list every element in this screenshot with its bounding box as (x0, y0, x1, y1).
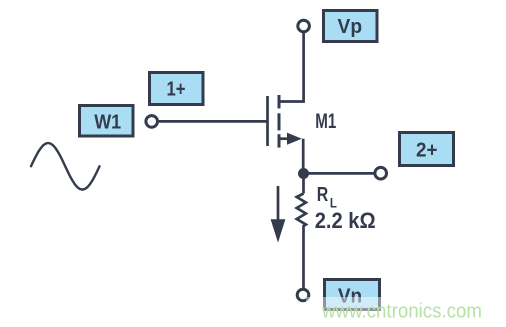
terminal W1 (146, 116, 158, 128)
svg-text:2.2 kΩ: 2.2 kΩ (315, 208, 376, 233)
source lead (279, 137, 289, 140)
channel segment top (278, 95, 281, 108)
label box W1 (80, 106, 134, 137)
node junction dot (298, 168, 309, 179)
wire W1 to gate (159, 120, 267, 123)
wire junction to output terminal (304, 172, 375, 175)
svg-text:1+: 1+ (167, 79, 186, 101)
svg-text:Vp: Vp (338, 16, 363, 38)
svg-text:R: R (317, 184, 329, 206)
channel segment bottom (278, 134, 281, 147)
svg-text:W1: W1 (94, 111, 121, 133)
svg-text:M1: M1 (315, 110, 336, 133)
resistor RL (302, 178, 305, 194)
svg-text:www.cntronics.com: www.cntronics.com (321, 301, 482, 323)
drain lead (279, 33, 304, 102)
label box Vp (324, 11, 378, 42)
current direction arrow (277, 186, 280, 221)
source sine wave symbol (31, 143, 100, 190)
label box 2+ (400, 133, 454, 166)
watermark overlay strip (306, 297, 506, 321)
terminal Vn (297, 289, 309, 301)
gate bar (266, 96, 269, 146)
label box Vn (325, 280, 380, 310)
source vertical wire (302, 139, 305, 174)
svg-text:2+: 2+ (416, 139, 438, 161)
label box 1+ (150, 73, 204, 105)
source arrowhead (287, 133, 302, 145)
channel segment middle (278, 113, 281, 130)
terminal Vp (298, 20, 310, 32)
terminal 2+ (375, 167, 387, 179)
